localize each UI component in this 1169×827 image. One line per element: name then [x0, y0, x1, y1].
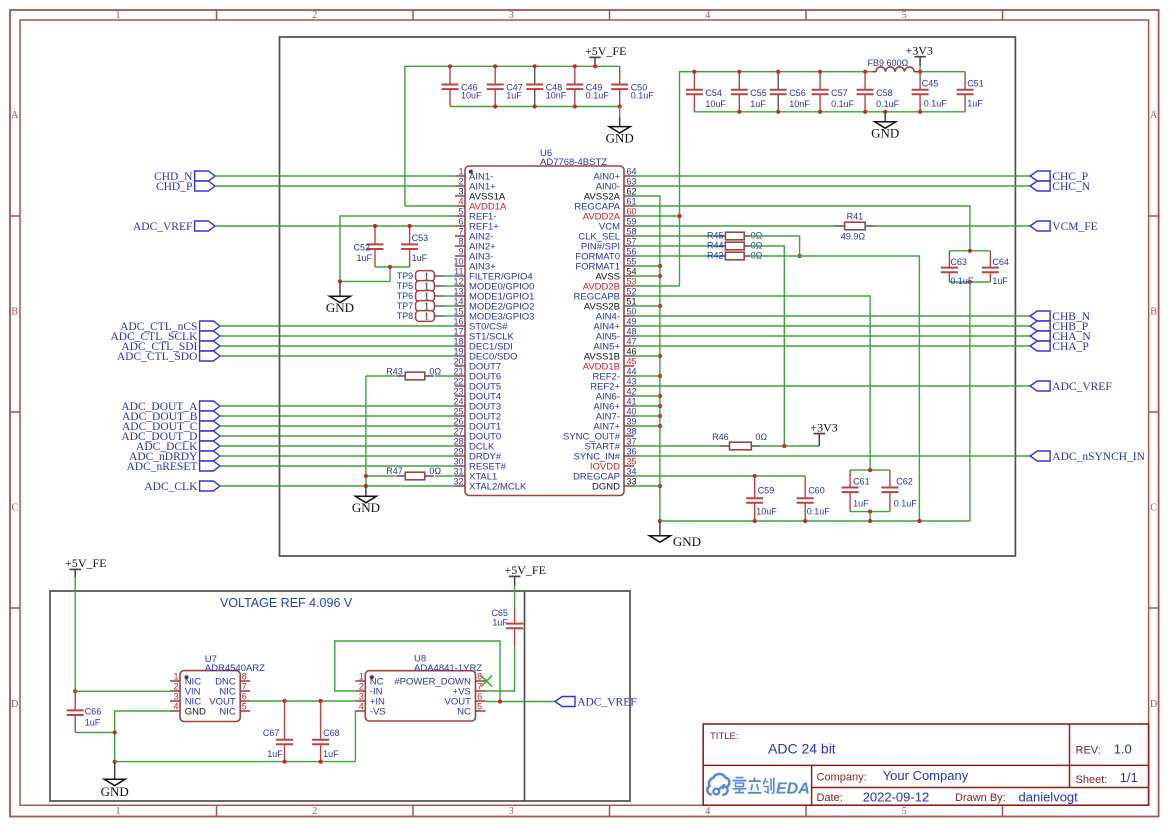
pin U8 6 VOUT [445, 691, 486, 707]
pin U7 2 VIN [170, 681, 201, 697]
test point TP7 [397, 301, 445, 313]
svg-text:ADC_CTL_SDO: ADC_CTL_SDO [117, 351, 198, 363]
port CHB_N [1030, 311, 1050, 321]
wire R43 to pin 21 [435, 375, 455, 377]
pin 53 AVDD2B [583, 276, 637, 292]
port VCM_FE [1030, 221, 1050, 231]
svg-text:58: 58 [627, 226, 637, 236]
pin 25 DOUT2 [453, 406, 501, 422]
svg-text:10: 10 [453, 256, 463, 266]
pin 30 RESET# [453, 456, 506, 472]
svg-text:10uF: 10uF [461, 90, 482, 100]
pin 54 AVSS [595, 266, 636, 282]
capacitor C52 1uF [353, 226, 383, 267]
wire feedback VOUT to -IN [335, 641, 500, 702]
svg-text:C57: C57 [831, 88, 848, 98]
wire VCM to R41 [634, 225, 834, 227]
power +5V_FE for U8 [505, 563, 546, 607]
svg-text:R41: R41 [847, 211, 864, 221]
svg-text:CHA_P: CHA_P [1052, 341, 1088, 353]
svg-text:39: 39 [627, 416, 637, 426]
pin 12 MODE0/GPIO0 [453, 276, 534, 292]
svg-text:C61: C61 [853, 477, 870, 487]
wire ADC_CLK to pin 32 [220, 485, 455, 487]
svg-text:10nF: 10nF [546, 90, 567, 100]
svg-text:R44: R44 [707, 241, 724, 251]
wire AVDD2A pin 60 [634, 215, 680, 217]
wire ADC_VREF to pin 6 REF1+ [215, 225, 455, 227]
svg-text:D: D [1150, 699, 1157, 710]
port ADC_DOUT_D [200, 431, 220, 441]
wire U7 GND down [115, 711, 170, 762]
svg-text:danielvogt: danielvogt [1019, 790, 1079, 805]
pin 58 CLK_SEL [578, 226, 636, 242]
svg-text:5: 5 [242, 701, 247, 711]
svg-text:35: 35 [627, 456, 637, 466]
pin 18 DEC1/SDI [453, 336, 512, 352]
svg-text:4: 4 [705, 806, 710, 817]
op-amp U7 ADR4540ARZ body [180, 654, 265, 722]
wire +5V_FE top rail [405, 66, 620, 206]
column ticks [217, 10, 1003, 817]
wire AVSS1B pin 46 [634, 355, 660, 357]
wire digital ground rail [660, 520, 970, 522]
svg-text:0.1uF: 0.1uF [586, 90, 610, 100]
wire analog ref ground rail [115, 761, 356, 763]
capacitor C54 10uF [686, 72, 727, 112]
svg-text:1: 1 [116, 10, 121, 21]
svg-text:REV:: REV: [1076, 745, 1101, 757]
svg-text:3: 3 [509, 10, 514, 21]
svg-text:ADC_nRESET: ADC_nRESET [126, 461, 197, 473]
svg-text:5: 5 [902, 806, 907, 817]
svg-text:1: 1 [173, 671, 178, 681]
svg-text:54: 54 [627, 266, 637, 276]
svg-text:VCM_FE: VCM_FE [1052, 221, 1097, 233]
pin 2 AIN1+ [455, 176, 496, 192]
wire R41 to VCM_FE [876, 225, 1031, 227]
svg-text:10nF: 10nF [789, 99, 810, 109]
pin 10 AIN3+ [453, 256, 496, 272]
svg-text:C60: C60 [808, 486, 825, 496]
wire R46 to +3V3 [760, 445, 819, 447]
wire R42 FORMAT0 to ground rail [751, 256, 920, 521]
svg-text:DGND: DGND [592, 481, 620, 492]
pin 56 FORMAT0 [575, 246, 636, 262]
svg-text:17: 17 [453, 326, 463, 336]
wire ADC_CTL_SDI [220, 345, 455, 347]
port ADC_DOUT_B [200, 411, 220, 421]
svg-text:44: 44 [627, 366, 637, 376]
wire C63 C64 to ground rail [969, 282, 971, 521]
pin 15 MODE3/GPIO3 [453, 306, 534, 322]
svg-text:19: 19 [453, 346, 463, 356]
capacitor C66 1uF [67, 691, 102, 732]
svg-text:13: 13 [453, 286, 463, 296]
junction ADC_CLK gnd node [364, 484, 368, 488]
pin 64 AIN0+ [593, 166, 636, 182]
pin 50 AIN4- [596, 306, 637, 322]
svg-text:42: 42 [627, 386, 637, 396]
svg-text:ADC_CLK: ADC_CLK [144, 481, 198, 493]
svg-text:+3V3: +3V3 [906, 44, 933, 58]
svg-text:55: 55 [627, 256, 637, 266]
svg-text:46: 46 [627, 346, 637, 356]
svg-text:1: 1 [116, 806, 121, 817]
wire DGND pin 33 [634, 485, 660, 487]
port ADC_DOUT_A [200, 401, 220, 411]
pin 52 REGCAPB [574, 286, 637, 302]
svg-text:61: 61 [627, 196, 637, 206]
svg-text:NIC: NIC [219, 706, 236, 717]
svg-text:1uF: 1uF [85, 718, 101, 728]
pin 49 AIN4+ [593, 316, 636, 332]
svg-text:TP7: TP7 [397, 301, 414, 311]
svg-text:C: C [11, 503, 18, 514]
junction C67 C68 taps [282, 699, 322, 703]
capacitor C50 0.1uF [611, 66, 654, 106]
pin 57 PIN#/SPI [581, 236, 637, 252]
svg-text:C54: C54 [705, 88, 722, 98]
wire AVSS rail vertical [634, 196, 660, 521]
svg-text:1uF: 1uF [750, 99, 766, 109]
pin 45 AVDD1B [583, 356, 637, 372]
row ticks [10, 216, 1159, 608]
junctions top bank rail [448, 64, 622, 108]
junction REF1+ caps [373, 224, 412, 228]
svg-text:C45: C45 [922, 79, 939, 89]
svg-text:3: 3 [173, 691, 178, 701]
ground GND main [659, 521, 661, 536]
svg-text:Drawn By:: Drawn By: [955, 792, 1006, 804]
wire TP5 to chip [445, 285, 455, 287]
svg-text:B: B [1150, 307, 1157, 318]
pin 59 VCM [599, 216, 637, 232]
svg-text:2: 2 [312, 806, 317, 817]
svg-text:C58: C58 [876, 88, 893, 98]
svg-text:+5V_FE: +5V_FE [585, 44, 626, 58]
resistor R46 0ohm [712, 432, 767, 450]
svg-text:2: 2 [173, 681, 178, 691]
port ADC_CTL_SCLK [200, 331, 220, 341]
svg-text:TP9: TP9 [397, 271, 414, 281]
wire rail right of FB9 [918, 71, 965, 73]
capacitor C63 0.1uF [941, 251, 991, 286]
svg-text:1uF: 1uF [506, 90, 522, 100]
svg-text:24: 24 [453, 396, 463, 406]
capacitor C46 10uF [442, 66, 483, 106]
junctions ref rail [282, 760, 322, 764]
svg-text:C52: C52 [353, 242, 370, 252]
wire DREGCAP to C59 C60 [634, 475, 805, 477]
svg-text:C55: C55 [750, 88, 767, 98]
pin 9 AIN3- [455, 246, 493, 262]
svg-text:5: 5 [477, 701, 482, 711]
pin 40 AIN7- [596, 406, 637, 422]
port ADC_VREF left [195, 221, 215, 231]
pin 17 ST1/SCLK [453, 326, 514, 342]
pin 6 REF1+ [455, 216, 499, 232]
svg-text:22: 22 [453, 376, 463, 386]
ferrite bead FB9 600ohm [867, 58, 918, 72]
wire R44 to 3V3 net [751, 246, 785, 446]
row labels [11, 110, 1158, 710]
svg-text:GND: GND [101, 784, 129, 799]
svg-text:57: 57 [627, 236, 637, 246]
svg-text:0.1uF: 0.1uF [807, 507, 831, 517]
svg-text:16: 16 [453, 316, 463, 326]
capacitor C55 1uF [731, 72, 767, 112]
svg-text:1uF: 1uF [853, 499, 869, 509]
svg-text:1: 1 [424, 311, 429, 322]
svg-text:47: 47 [627, 336, 637, 346]
svg-text:5: 5 [902, 10, 907, 21]
svg-text:GND: GND [871, 126, 899, 141]
svg-text:29: 29 [453, 446, 463, 456]
svg-text:1uF: 1uF [267, 749, 283, 759]
pin U7 1 NIC [170, 671, 201, 687]
svg-text:6: 6 [458, 216, 463, 226]
port ADC_CTL_nCS [200, 321, 220, 331]
svg-text:7: 7 [242, 681, 247, 691]
pin 55 FORMAT1 [575, 256, 636, 272]
svg-text:0.1uF: 0.1uF [924, 98, 948, 108]
power +5V_FE lower left [65, 556, 106, 691]
junction +5V_FE tap [593, 64, 597, 68]
svg-text:C67: C67 [263, 728, 280, 738]
svg-text:1uF: 1uF [356, 253, 372, 263]
svg-text:C53: C53 [412, 233, 429, 243]
svg-text:C62: C62 [896, 477, 913, 487]
svg-text:R46: R46 [712, 432, 729, 442]
wire CHA_P [634, 345, 1030, 347]
pin 38 SYNC_OUT# [563, 426, 637, 442]
junction C59 tap [753, 474, 757, 478]
test point TP9 [397, 271, 445, 283]
wire START# to R46 [634, 445, 721, 447]
wire REGCAPB to C61 C62 [634, 296, 870, 470]
svg-text:64: 64 [627, 166, 637, 176]
svg-text:ADA4841-1YRZ: ADA4841-1YRZ [414, 663, 482, 674]
svg-text:0.1uF: 0.1uF [894, 499, 918, 509]
pin 28 DCLK [453, 436, 495, 452]
svg-text:GND: GND [326, 300, 354, 315]
ground GND right bank [884, 112, 886, 122]
pin U8 4 -VS [355, 701, 385, 717]
pin 29 DRDY# [453, 446, 501, 462]
svg-text:+5V_FE: +5V_FE [65, 556, 106, 570]
svg-text:CHD_P: CHD_P [156, 181, 192, 193]
svg-text:600Ω: 600Ω [887, 58, 909, 68]
wire C61 C62 bottom tap to rail [869, 512, 871, 521]
pin 60 AVDD2A [583, 206, 637, 222]
junction FB9 +3V3 C45 [918, 70, 922, 74]
svg-text:3: 3 [458, 186, 463, 196]
svg-text:63: 63 [627, 176, 637, 186]
svg-text:FB9: FB9 [867, 58, 884, 68]
svg-text:TITLE:: TITLE: [710, 731, 739, 742]
svg-text:4: 4 [705, 10, 710, 21]
wire FORMAT1 strap [634, 265, 660, 267]
svg-text:EDA: EDA [776, 780, 810, 797]
svg-text:GND: GND [606, 130, 634, 145]
wire ADC_CTL_SDO [220, 355, 455, 357]
pin 63 AIN0- [596, 176, 637, 192]
junction REF1- node [338, 265, 392, 284]
pin 22 DOUT5 [453, 376, 501, 392]
port CHD_P [195, 181, 215, 191]
svg-text:34: 34 [627, 466, 637, 476]
resistor R44 0ohm [634, 241, 763, 251]
wire AIN0+ to CHC_P [634, 175, 1030, 177]
svg-text:25: 25 [453, 406, 463, 416]
svg-text:ADR4540ARZ: ADR4540ARZ [205, 663, 265, 674]
pin 39 AIN7+ [593, 416, 636, 432]
port ADC_DCLK [200, 441, 220, 451]
svg-text:GND: GND [673, 534, 701, 549]
junction R45 R42 node [798, 254, 802, 258]
pin 14 MODE2/GPIO2 [453, 296, 534, 312]
svg-text:11: 11 [454, 266, 463, 276]
port ADC_VREF output [555, 697, 575, 707]
wire top bank bottom rail [450, 106, 620, 108]
wire TP8 to chip [445, 315, 455, 317]
port ADC_nDRDY [200, 451, 220, 461]
pin 5 REF1- [455, 206, 496, 222]
port ADC_CLK [200, 481, 220, 491]
svg-text:ADC_VREF: ADC_VREF [1052, 381, 1111, 393]
svg-text:C64: C64 [992, 257, 1009, 267]
port ADC_CTL_SDI [200, 341, 220, 351]
pin U8 1 NC [355, 671, 383, 687]
svg-text:C56: C56 [789, 88, 806, 98]
svg-text:AD7768-4BSTZ: AD7768-4BSTZ [540, 157, 607, 168]
svg-text:ADC_VREF: ADC_VREF [577, 696, 636, 708]
svg-text:6: 6 [477, 691, 482, 701]
svg-text:18: 18 [453, 336, 463, 346]
capacitor C49 0.1uF [566, 66, 609, 106]
svg-text:0Ω: 0Ω [755, 432, 767, 442]
capacitor C68 1uF [312, 701, 340, 762]
junction VOUT node [498, 699, 502, 703]
op-amp U8 ADA4841-1YRZ body [365, 654, 482, 722]
main circuit box [280, 37, 1016, 556]
svg-text:23: 23 [453, 386, 463, 396]
pin 35 IOVDD [590, 456, 637, 472]
wire REF2- strap [634, 375, 660, 377]
svg-text:D: D [11, 699, 18, 710]
pin 27 DOUT0 [453, 426, 501, 442]
capacitor C56 10nF [770, 72, 811, 112]
wire AIN6+ strap [634, 405, 660, 407]
svg-text:6: 6 [242, 691, 247, 701]
svg-text:ADC 24 bit: ADC 24 bit [768, 741, 836, 757]
svg-text:0Ω: 0Ω [429, 366, 441, 376]
svg-text:Your Company: Your Company [883, 768, 969, 783]
no-connect X on U8 pin 8 [481, 676, 492, 687]
svg-text:0.1uF: 0.1uF [631, 90, 655, 100]
svg-text:1uF: 1uF [492, 618, 508, 628]
svg-text:49: 49 [627, 316, 637, 326]
pin 41 AIN6+ [593, 396, 636, 412]
wire +VS to C65 [486, 647, 515, 691]
svg-text:21: 21 [453, 366, 463, 376]
pin U7 4 GND [170, 701, 206, 717]
power +5V_FE top [585, 44, 626, 66]
pin 42 AIN6- [596, 386, 637, 402]
svg-text:TP6: TP6 [397, 291, 414, 301]
wire ADC_CTL_SCLK [220, 335, 455, 337]
capacitor C59 10uF [746, 476, 777, 521]
wire right bank bottom rail [694, 111, 965, 113]
power +3V3 top [906, 44, 933, 72]
svg-text:51: 51 [627, 296, 637, 306]
wire CHD_P to pin 2 [215, 185, 455, 187]
svg-text:B: B [11, 307, 18, 318]
capacitor C51 1uF [957, 72, 984, 112]
capacitor C67 1uF [263, 701, 293, 762]
svg-text:50: 50 [627, 306, 637, 316]
pin 32 XTAL2/MCLK [453, 476, 527, 492]
pin 37 START# [584, 436, 636, 452]
junctions right bank rails [692, 70, 922, 114]
svg-text:10uF: 10uF [705, 99, 726, 109]
wire AIN7- strap [634, 415, 660, 417]
pin 3 AVSS1A [455, 186, 506, 202]
svg-text:C63: C63 [950, 257, 967, 267]
svg-text:C: C [1150, 503, 1157, 514]
port ADC_DOUT_C [200, 421, 220, 431]
svg-text:10uF: 10uF [756, 507, 777, 517]
ground GND near C52 [339, 281, 341, 296]
pin 16 ST0/CS# [453, 316, 508, 332]
wire AVSS pin 54 [634, 275, 660, 277]
pin 24 DOUT3 [453, 396, 501, 412]
logo JLC EDA [707, 774, 810, 797]
pin U7 8 DNC [215, 671, 250, 687]
capacitor C65 1uF [491, 607, 523, 647]
title block [703, 724, 1148, 805]
svg-text:60: 60 [627, 206, 637, 216]
junction AVDD rail pin 60 [677, 214, 681, 218]
wire ADC_DOUT_B [220, 415, 455, 417]
test point TP5 [397, 281, 445, 293]
svg-text:12: 12 [453, 276, 463, 286]
test point TP6 [397, 291, 445, 303]
junction R44 R46 node [782, 444, 786, 448]
svg-text:-VS: -VS [370, 706, 386, 717]
pin 43 REF2+ [590, 376, 636, 392]
pin 23 DOUT4 [453, 386, 501, 402]
pin U8 5 NC [457, 701, 485, 717]
svg-text:GND: GND [185, 706, 206, 717]
svg-text:A: A [1150, 110, 1158, 121]
pin 13 MODE1/GPIO1 [453, 286, 534, 302]
svg-text:43: 43 [627, 376, 637, 386]
wire ADC_CTL_nCS [220, 325, 455, 327]
ground GND near R47 [365, 486, 367, 496]
pin 47 AIN5+ [593, 336, 636, 352]
svg-text:45: 45 [627, 356, 637, 366]
pin U8 8 #POWER_DOWN [394, 671, 485, 687]
op-amp U6 AD7768-4BSTZ body [465, 148, 624, 496]
pin U8 3 +IN [355, 691, 385, 707]
svg-text:28: 28 [453, 436, 463, 446]
svg-text:3: 3 [509, 806, 514, 817]
wire U8 -VS to rail [354, 711, 356, 762]
pin U7 5 NIC [219, 701, 250, 717]
svg-text:26: 26 [453, 416, 463, 426]
